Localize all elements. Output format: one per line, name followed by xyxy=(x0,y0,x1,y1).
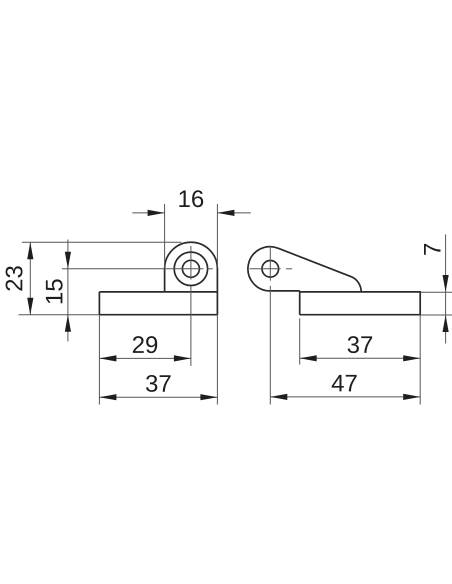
left view horizontal centerline / 15-extension xyxy=(62,268,204,270)
dimension 15 text xyxy=(46,279,63,303)
dimension 47 text xyxy=(332,375,357,392)
dimension 37 right arrowheads xyxy=(300,355,421,361)
dimension 15 arrowheads xyxy=(65,252,71,332)
dimension 37 left text xyxy=(146,375,171,392)
dimension 29 arrowheads xyxy=(99,355,190,361)
left view vertical centerline xyxy=(190,246,192,280)
dimension 47/37 right extension line xyxy=(419,315,421,405)
dimension 16 line xyxy=(132,212,251,214)
dimension 37 right text xyxy=(348,336,373,353)
dimension 29 line xyxy=(99,357,190,359)
dimension 23 extension line top xyxy=(22,241,182,243)
left view plate outline xyxy=(99,292,217,315)
right view lobe outline xyxy=(248,247,361,292)
dimension 23 text xyxy=(6,266,23,290)
dimension 37 left extension lines xyxy=(99,315,217,405)
left view boss outer circle xyxy=(174,252,207,285)
dimension 23 arrowheads xyxy=(27,242,33,315)
dimension 7 text xyxy=(424,244,441,255)
dimension 16 text xyxy=(179,190,203,207)
dimension 7 arrowheads xyxy=(443,275,449,332)
dimension 37 right extension line xyxy=(299,318,301,364)
dimension 7 extension lines xyxy=(420,292,452,315)
left view boss outline xyxy=(165,242,218,314)
right view vertical centerline / 47-extension xyxy=(269,246,271,281)
dimension 15 line xyxy=(67,240,69,342)
dimension 47 line xyxy=(270,396,420,398)
dimension 47 arrowheads xyxy=(270,394,420,400)
dimension 37 left line xyxy=(99,396,217,398)
right view plate outline xyxy=(300,291,421,315)
right view hole circle xyxy=(262,261,279,278)
dimension 7 line xyxy=(445,234,447,343)
dimension 37 left arrowheads xyxy=(99,394,217,400)
dimension 29 text xyxy=(133,336,157,353)
dimension 23/15 extension line bottom xyxy=(19,314,100,316)
dimension 23 line xyxy=(29,242,31,315)
left view hole circle xyxy=(182,260,199,277)
dimension 16 extension lines xyxy=(165,204,218,268)
dimension 37 right line xyxy=(300,357,421,359)
right view horizontal centerline xyxy=(250,268,281,270)
dimension 16 arrowheads xyxy=(148,210,235,216)
